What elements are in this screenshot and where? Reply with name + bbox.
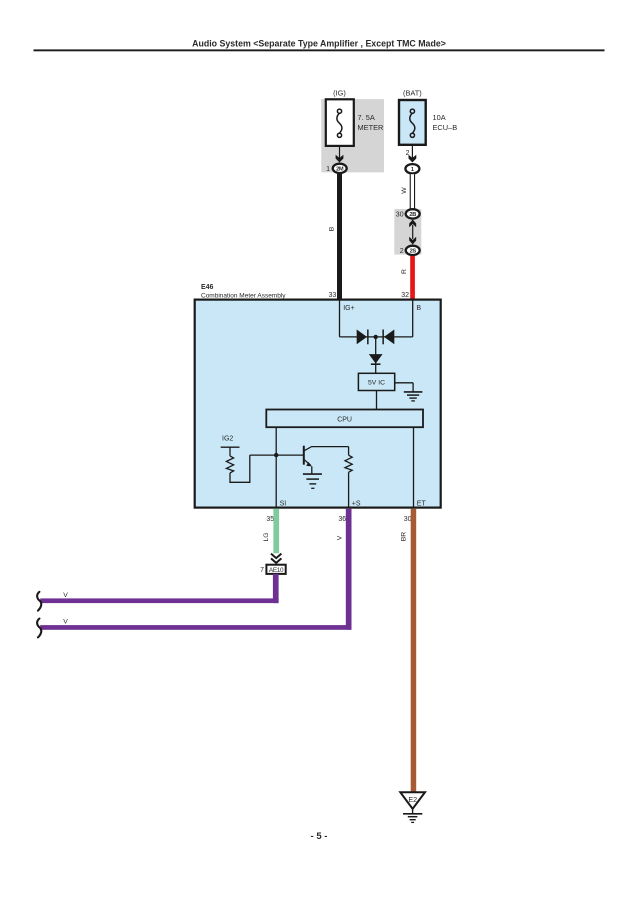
- wire V horizontal 1 (purple): [40, 598, 278, 603]
- IG2 terminal bar: [221, 446, 240, 448]
- resistor R1 (IG2): [226, 447, 249, 482]
- svg-text:V: V: [63, 592, 68, 599]
- fuse F1 (IG) gray background block: [321, 99, 384, 172]
- svg-text:33: 33: [329, 292, 337, 299]
- diode D1: [357, 330, 369, 345]
- connector 2S: [406, 246, 420, 255]
- wire fuse F2 to connector 1: [411, 145, 413, 161]
- wire +S vertical (purple) pin 36: [346, 509, 352, 630]
- wire ET internal: [413, 427, 415, 507]
- connector 2B: [406, 209, 420, 218]
- svg-text:V: V: [336, 535, 343, 540]
- svg-text:IG+: IG+: [343, 305, 354, 312]
- fuse F2 (BAT) box: [399, 100, 426, 145]
- svg-text:R: R: [401, 269, 408, 274]
- diode D3: [369, 354, 383, 365]
- wire 5V IC to CPU: [376, 391, 378, 410]
- svg-text:ET: ET: [417, 501, 427, 508]
- svg-text:+S: +S: [352, 501, 361, 508]
- fuse F1 symbol: [337, 109, 342, 137]
- node dot: [374, 335, 378, 339]
- svg-text:B: B: [416, 305, 421, 312]
- wire B internal: [412, 300, 414, 337]
- svg-text:E2: E2: [408, 795, 417, 804]
- transistor Q1: [304, 446, 349, 474]
- svg-text:32: 32: [401, 292, 409, 299]
- resistor R2 (+S pull): [345, 447, 352, 508]
- combination meter assembly E46 box: [195, 300, 441, 508]
- wire diode junction horizontal: [340, 336, 413, 338]
- node dot SI/base: [274, 453, 278, 457]
- wire IG+ internal: [339, 300, 341, 337]
- svg-text:7: 7: [260, 567, 264, 574]
- svg-text:5V IC: 5V IC: [368, 380, 385, 387]
- ground G1: [395, 383, 423, 401]
- wire B (black) connector 2M to pin 33: [337, 174, 342, 300]
- wire fuse F1 to connector 2M: [339, 146, 341, 161]
- svg-text:BR: BR: [401, 532, 408, 542]
- wire BR (brown) pin 30 to E2: [411, 509, 417, 793]
- break symbol 2: [37, 619, 41, 638]
- connector 2M: [333, 164, 347, 173]
- arrow into connector 2M: [336, 155, 344, 163]
- wire V vertical (purple) below AE10: [273, 574, 279, 603]
- connector 1: [405, 164, 419, 173]
- wire W (white) connector 1 to connector 2B: [410, 174, 415, 209]
- ground E2: [400, 792, 425, 822]
- junction block gray background: [394, 209, 421, 255]
- svg-text:1: 1: [326, 166, 330, 173]
- svg-text:LG: LG: [263, 532, 270, 541]
- wire base (IG2 to transistor): [250, 454, 303, 456]
- wire SI internal: [275, 427, 277, 507]
- fuse F1 box: [326, 99, 354, 146]
- svg-text:(IG): (IG): [333, 89, 346, 98]
- svg-text:ECU–B: ECU–B: [433, 123, 458, 132]
- svg-text:CPU: CPU: [337, 417, 352, 424]
- svg-text:V: V: [63, 619, 68, 626]
- svg-text:2B: 2B: [409, 212, 416, 218]
- svg-text:Audio System <Separate Type Am: Audio System <Separate Type Amplifier , …: [192, 39, 446, 49]
- arrow down inside junction: [409, 237, 416, 245]
- diode D2: [382, 330, 394, 345]
- ground G2: [303, 474, 322, 488]
- svg-text:1: 1: [411, 167, 414, 173]
- in-line connector chevrons: [271, 554, 281, 563]
- wire V horizontal 2 (purple): [40, 625, 351, 630]
- break symbol 1: [37, 592, 41, 611]
- svg-text:30: 30: [404, 516, 412, 523]
- svg-text:7. 5A: 7. 5A: [358, 113, 375, 122]
- arrow up inside junction: [409, 220, 416, 228]
- wire node to diode D3: [375, 337, 377, 373]
- svg-text:E46: E46: [201, 284, 214, 291]
- CPU block: [266, 410, 423, 428]
- svg-text:SI: SI: [280, 501, 287, 508]
- header rule: [34, 49, 605, 51]
- arrow into connector 1: [409, 155, 417, 163]
- svg-text:(BAT): (BAT): [403, 89, 422, 98]
- svg-text:AE10: AE10: [269, 567, 284, 574]
- svg-text:36: 36: [338, 516, 346, 523]
- svg-text:35: 35: [266, 516, 274, 523]
- svg-text:W: W: [401, 187, 408, 194]
- wire R (red) connector 2S to pin 32: [410, 256, 415, 300]
- wire LG (green) pin 35: [273, 509, 279, 554]
- svg-text:B: B: [329, 226, 336, 231]
- svg-text:2: 2: [400, 248, 404, 255]
- svg-text:30: 30: [396, 211, 404, 218]
- svg-text:10A: 10A: [433, 113, 446, 122]
- fuse F2 symbol: [410, 109, 415, 137]
- wire between junction arrows: [412, 225, 414, 239]
- svg-text:METER: METER: [358, 123, 384, 132]
- svg-text:2M: 2M: [336, 167, 344, 173]
- IC U1 5V: [358, 373, 394, 390]
- svg-text:- 5 -: - 5 -: [311, 831, 328, 842]
- svg-text:2S: 2S: [410, 249, 417, 255]
- connector AE10: [266, 565, 285, 574]
- svg-text:IG2: IG2: [222, 436, 233, 443]
